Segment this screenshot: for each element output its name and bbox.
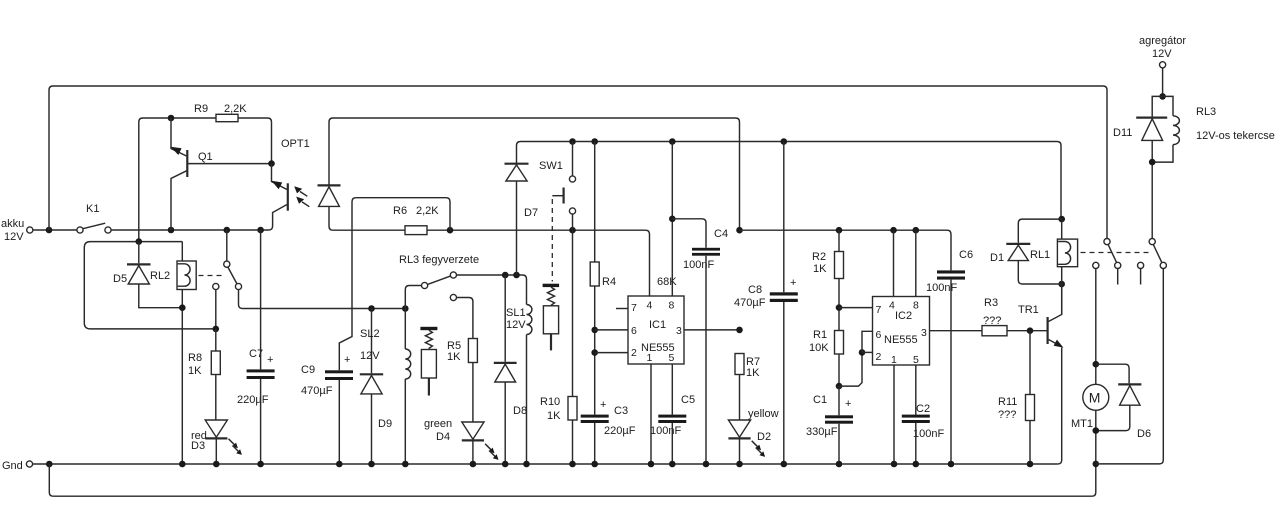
wire R9 right to OPT1 collector node (238, 118, 272, 164)
svg-text:C6: C6 (959, 249, 973, 261)
svg-text:akku: akku (1, 218, 24, 230)
node junction R2/R1/IC2 pin7 (836, 304, 843, 311)
svg-text:green: green (424, 418, 452, 430)
node junction pin3 / R7 riser (736, 327, 743, 334)
svg-text:12V: 12V (4, 231, 24, 243)
node junction D3 ground (213, 461, 220, 468)
svg-text:D9: D9 (378, 418, 392, 430)
svg-text:+: + (845, 398, 851, 410)
resistor R11 ??? (998, 331, 1035, 464)
svg-text:12V-os tekercse: 12V-os tekercse (1196, 130, 1275, 142)
transistor TR1 (1018, 284, 1063, 464)
node junction ground loop start (46, 461, 53, 468)
svg-text:R8: R8 (188, 352, 202, 364)
switch K1 (77, 203, 111, 233)
svg-text:2: 2 (631, 347, 637, 359)
wire akku rail K1 to OPT1 emitter corner (111, 214, 272, 230)
wire R9 top wire with left corner down (139, 118, 216, 242)
svg-text:IC2: IC2 (895, 310, 912, 322)
wire bottom return loop (49, 464, 1096, 496)
svg-text:Q1: Q1 (198, 151, 213, 163)
wire dashed RL1 actuation (1081, 252, 1151, 254)
node junction RL2 coil ground (179, 461, 186, 468)
capacitor C1 330uF (806, 386, 853, 464)
svg-text:agregátor: agregátor (1139, 35, 1186, 47)
capacitor C6 100nF (926, 249, 973, 464)
node junction IC2 pin4 on wire C (890, 227, 897, 234)
optocoupler OPT1 phototransistor (272, 138, 310, 214)
svg-text:4: 4 (647, 300, 653, 312)
svg-text:2,2K: 2,2K (224, 103, 247, 115)
svg-text:+: + (344, 354, 350, 366)
svg-text:OPT1: OPT1 (281, 138, 310, 150)
svg-text:C8: C8 (748, 284, 762, 296)
wire IC1 pin2 (595, 352, 628, 354)
node junction Q1 base / OPT1 collector (268, 160, 275, 167)
solenoid SL2 armature and plunger (420, 327, 437, 396)
svg-text:+: + (790, 277, 796, 289)
op-amp IC2 NE555 (873, 297, 930, 367)
wire IC1 pin1 to ground (650, 364, 652, 464)
node junction wire D / SL2 coil / RL3 switch riser (402, 305, 409, 312)
wire IC1 pin7 stub (616, 308, 628, 310)
node junction C9 ground (336, 461, 343, 468)
svg-text:1K: 1K (746, 367, 760, 379)
svg-text:RL3 fegyverzete: RL3 fegyverzete (399, 254, 479, 266)
node junction RL3 coil bottom (1149, 159, 1156, 166)
node junction pin3 riser on wire C (736, 227, 743, 234)
svg-text:+: + (267, 354, 273, 366)
svg-text:SW1: SW1 (539, 160, 563, 172)
svg-text:D8: D8 (513, 405, 527, 417)
svg-text:1: 1 (647, 352, 653, 364)
svg-text:C3: C3 (614, 405, 628, 417)
node junction C4 tee on pin8 riser (669, 216, 676, 223)
node junction SL2 ground (402, 461, 409, 468)
node junction D9 ground (368, 461, 375, 468)
solenoid SL1 coil (506, 305, 532, 465)
node junction SL1 ground (523, 461, 530, 468)
wire IC1 pin3 (684, 329, 740, 331)
node junction TR1 base / R11 (1027, 327, 1034, 334)
wire IC1 pin6 (595, 329, 628, 331)
svg-text:6: 6 (876, 329, 882, 341)
node junction C7 on akku rail (257, 227, 264, 234)
capacitor C3 220uF (581, 399, 636, 464)
svg-text:SL2: SL2 (360, 328, 380, 340)
resistor R9 2,2K (194, 103, 247, 122)
wire IC2 pin8 riser (915, 230, 917, 296)
resistor R3 ??? (982, 297, 1047, 336)
wire OPT1 LED cathode to IC1 pin3 riser (329, 118, 740, 230)
wire dashed SW1 to SL1 link (551, 199, 553, 282)
node junction IC2 pin8 on wire C (913, 227, 920, 234)
svg-text:12V: 12V (1152, 48, 1172, 60)
node junction R1 bottom / C1 / pin2 riser (836, 383, 843, 390)
svg-text:D3: D3 (191, 440, 205, 452)
svg-text:68K: 68K (657, 276, 677, 288)
svg-text:4: 4 (889, 300, 895, 312)
LED D2 yellow (728, 408, 778, 464)
node junction C8 ground (781, 461, 788, 468)
svg-text:1K: 1K (547, 410, 561, 422)
svg-text:3: 3 (676, 325, 682, 337)
svg-text:2,2K: 2,2K (416, 205, 439, 217)
node Gnd terminal (2, 460, 33, 472)
node junction D7 on SL1 wire (513, 272, 520, 279)
switch RL1 pole 2 (1138, 162, 1167, 284)
switch SW1 pushbutton (539, 142, 576, 231)
node akku junction to top rail (46, 227, 53, 234)
node junction R8 top (213, 326, 220, 333)
relay RL1 coil (1030, 219, 1078, 314)
node agregator 12V terminal (1139, 35, 1186, 96)
node junction C3 ground (591, 461, 598, 468)
node junction R4 bottom / IC1 pin6 (591, 327, 598, 334)
capacitor C5 100nF (650, 364, 695, 464)
wire RL2 top edge right (139, 241, 183, 243)
capacitor C9 470uF (301, 354, 353, 464)
LED D3 red (191, 420, 242, 464)
svg-text:220µF: 220µF (237, 394, 269, 406)
svg-text:R2: R2 (812, 251, 826, 263)
node junction IC1 pin8 riser on 141 wire (669, 138, 676, 145)
svg-text:10K: 10K (809, 342, 829, 354)
node junction C7 ground (257, 461, 264, 468)
diode D9 (360, 309, 392, 465)
svg-text:yellow: yellow (748, 408, 779, 420)
wire C supply from pin3 node to C6 (740, 230, 952, 270)
wire D6 branch top (1096, 364, 1129, 383)
svg-text:+: + (600, 399, 606, 411)
svg-text:R6: R6 (393, 205, 407, 217)
node junction motor bottom / D6 (1093, 427, 1100, 434)
svg-text:C1: C1 (813, 394, 827, 406)
node junction IC1 pin2 / C3 (591, 349, 598, 356)
svg-text:NE555: NE555 (884, 334, 918, 346)
svg-text:C4: C4 (714, 228, 728, 240)
node junction SW1 bottom on R6 wire (569, 227, 576, 234)
svg-text:D4: D4 (436, 431, 450, 443)
svg-text:R3: R3 (984, 297, 998, 309)
svg-text:RL1: RL1 (1030, 249, 1050, 261)
svg-text:TR1: TR1 (1018, 304, 1039, 316)
node junction IC2 pin1 ground (891, 461, 898, 468)
switch RL3 fegyverzete (399, 254, 479, 309)
node junction D2 ground (736, 461, 743, 468)
wire ground rail (33, 463, 1058, 465)
svg-text:1K: 1K (813, 263, 827, 275)
node junction C8 on 141 wire (781, 138, 788, 145)
node junction motor ground loop (1093, 461, 1100, 468)
wire IC1 pin8 riser (671, 142, 673, 297)
relay RL2 coil (150, 242, 196, 464)
svg-text:470µF: 470µF (301, 385, 333, 397)
node junction IC1 pin1 ground (648, 461, 655, 468)
svg-text:D5: D5 (113, 273, 127, 285)
svg-text:5: 5 (913, 354, 919, 366)
node junction C5 ground (669, 461, 676, 468)
node junction wire D to D9 (368, 305, 375, 312)
node junction R4 top on 141 wire (591, 138, 598, 145)
capacitor C2 100nF (902, 365, 945, 464)
capacitor C4 100nF (683, 228, 728, 464)
node junction C1 ground (836, 461, 843, 468)
relay RL2 enclosure wire with rounded corners (84, 242, 216, 329)
wire IC2 pin3 to R3 (930, 330, 983, 332)
svg-text:7: 7 (631, 302, 637, 314)
node junction RL1 coil top / D1 (1058, 216, 1065, 223)
diode D5 (113, 242, 182, 308)
node junction D8 on SL1 wire (502, 272, 509, 279)
motor MT1 (1071, 384, 1109, 464)
resistor R5 1K (447, 298, 477, 423)
svg-text:R4: R4 (602, 276, 616, 288)
svg-text:330µF: 330µF (806, 426, 838, 438)
svg-text:8: 8 (669, 300, 675, 312)
wire dashed RL2 actuation (199, 275, 224, 277)
wire IC2 pin6 jog (862, 331, 873, 352)
node junction D6 tee (1093, 361, 1100, 368)
svg-text:R11: R11 (998, 396, 1017, 408)
wire loop R6 node up over to C9 jog (339, 198, 450, 371)
diode D7 (505, 142, 1062, 276)
svg-text:M: M (1089, 390, 1101, 406)
node junction R11 ground (1027, 461, 1034, 468)
diode D8 (494, 275, 527, 464)
svg-text:8: 8 (913, 300, 919, 312)
svg-text:D6: D6 (1137, 428, 1151, 440)
svg-text:R1: R1 (813, 329, 827, 341)
node junction D8 ground (502, 461, 509, 468)
svg-text:6: 6 (631, 325, 637, 337)
node junction RL1 coil bottom / D1 (1058, 281, 1065, 288)
svg-text:1: 1 (891, 354, 897, 366)
svg-text:C2: C2 (916, 403, 930, 415)
svg-text:100nF: 100nF (650, 425, 681, 437)
svg-text:SL1: SL1 (506, 307, 526, 319)
svg-text:12V: 12V (360, 350, 380, 362)
svg-text:???: ??? (998, 409, 1016, 421)
diode D1 (990, 219, 1062, 284)
wire motor bottom to pole2 throw (1096, 269, 1164, 464)
node junction C6 ground (948, 461, 955, 468)
diode D6 (1096, 384, 1151, 440)
wire IC2 pin1 to ground (893, 365, 895, 464)
svg-text:D11: D11 (1113, 127, 1132, 139)
op-amp IC1 NE555 (628, 296, 684, 364)
resistor R7 1K (735, 354, 760, 421)
optocoupler OPT1 LED (318, 185, 341, 206)
wire R6 right to IC1 pin 4 (427, 230, 650, 296)
svg-text:12V: 12V (506, 319, 526, 331)
svg-text:3: 3 (921, 327, 927, 339)
wire RL3 switch upper throw to SL1 wire (457, 275, 527, 305)
svg-text:D2: D2 (757, 431, 771, 443)
resistor R2 1K (812, 230, 844, 330)
relay RL3 coil 12V-os tekercse (1152, 96, 1275, 162)
wire IC2 pin2 (862, 351, 873, 353)
capacitor C8 470uF (734, 142, 798, 465)
wire IC2 pin4 riser (893, 230, 895, 296)
resistor R1 10K (809, 329, 844, 386)
svg-text:R9: R9 (194, 103, 208, 115)
node junction RL2 coil bottom / D5 (179, 304, 186, 311)
svg-text:1K: 1K (188, 365, 202, 377)
wire akku terminal to K1 (33, 229, 77, 231)
svg-text:RL3: RL3 (1196, 106, 1216, 118)
solenoid SL1 armature and plunger (543, 284, 560, 351)
node junction IC2 pin2/pin6 (859, 349, 866, 356)
node junction D5 top (136, 238, 143, 245)
wire C4 branch (672, 219, 706, 248)
node junction D4 ground (470, 461, 477, 468)
svg-text:D1: D1 (990, 252, 1004, 264)
svg-text:R10: R10 (540, 396, 560, 408)
svg-text:1K: 1K (447, 351, 461, 363)
svg-text:470µF: 470µF (734, 297, 766, 309)
wire motor feed from pole1 throw (1095, 269, 1097, 385)
node akku 12V terminal (1, 218, 33, 243)
wire R1 bottom to IC2 pin2 riser (839, 352, 862, 386)
node junction Q1 emitter on R9 wire (168, 115, 175, 122)
resistor R8 1K (188, 329, 220, 420)
svg-text:MT1: MT1 (1071, 418, 1093, 430)
resistor R10 1K (540, 230, 577, 464)
capacitor C7 220uF (237, 230, 275, 464)
svg-text:100nF: 100nF (683, 259, 714, 271)
svg-text:2: 2 (876, 351, 882, 363)
svg-text:5: 5 (669, 352, 675, 364)
node junction C2 ground (913, 461, 920, 468)
wire OPT1 LED anode down to R6 wire (329, 206, 405, 230)
diode D11 (1113, 96, 1167, 162)
switch RL2 contact SPDT (213, 230, 406, 329)
svg-text:C5: C5 (681, 394, 695, 406)
switch RL1 pole 1 (1093, 239, 1121, 285)
node junction RL2 contact common on akku rail (224, 227, 231, 234)
svg-text:7: 7 (876, 304, 882, 316)
wire IC2 pin7 (839, 307, 873, 309)
wire top positive rail (49, 86, 1107, 238)
svg-text:C9: C9 (301, 364, 315, 376)
svg-text:K1: K1 (86, 203, 99, 215)
svg-text:D7: D7 (524, 207, 538, 219)
node junction agregator / D11 / RL3 (1159, 93, 1166, 100)
solenoid SL2 coil (360, 309, 411, 465)
node junction R10 ground (569, 461, 576, 468)
svg-text:Gnd: Gnd (2, 460, 23, 472)
LED D4 green (424, 418, 499, 464)
svg-text:100nF: 100nF (926, 282, 957, 294)
node junction SW1 top on 141 wire (569, 138, 576, 145)
node junction Q1 collector on akku rail (168, 227, 175, 234)
node junction C4 ground (703, 461, 710, 468)
resistor R4 68K (590, 142, 677, 415)
svg-text:IC1: IC1 (649, 319, 666, 331)
svg-text:100nF: 100nF (913, 428, 944, 440)
svg-text:220µF: 220µF (604, 425, 636, 437)
transistor Q1 (171, 118, 272, 230)
resistor R6 2,2K (393, 205, 439, 235)
node junction R2 on wire C (836, 227, 843, 234)
node junction R6 loop tap (447, 227, 454, 234)
svg-text:RL2: RL2 (150, 270, 170, 282)
